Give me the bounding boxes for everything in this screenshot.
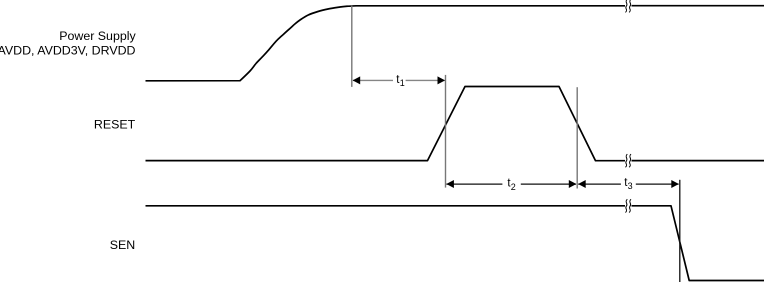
svg-text:1: 1 [400, 78, 405, 88]
arrowhead t1 right [438, 76, 446, 84]
arrowhead t3 right [671, 180, 679, 188]
arrowhead t3 left [578, 180, 586, 188]
svg-text:Power Supply: Power Supply [59, 29, 136, 43]
arrowhead t2 left [446, 180, 454, 188]
arrowhead t1 left [353, 76, 361, 84]
wire SEN waveform (high, fall, low) [146, 205, 626, 207]
measurement line at RESET falling mid [576, 87, 578, 188]
wire RESET waveform (low, rise, high, fall, low) [146, 87, 626, 161]
measurement line at power-up complete [351, 6, 353, 87]
dimension arrow t1 right segment [406, 79, 445, 81]
wire RESET low line after break [632, 160, 764, 162]
wire power-supply high line after break [632, 5, 764, 7]
svg-text:RESET: RESET [94, 118, 136, 132]
break symbol on power-supply line [625, 0, 631, 12]
svg-text:2: 2 [511, 182, 516, 192]
svg-text:SEN: SEN [110, 238, 135, 252]
dimension arrow t2 left segment [446, 183, 502, 185]
svg-text:3: 3 [628, 181, 633, 191]
dimension arrow t3 left segment [578, 183, 621, 185]
wire power-supply waveform (low, ramp, high plateau) [146, 6, 626, 81]
break symbol on SEN line [625, 199, 631, 212]
dimension arrow t1 left segment [353, 79, 393, 81]
measurement line at RESET rising mid [445, 75, 447, 188]
dimension arrow t2 right segment [521, 183, 576, 185]
break symbol on RESET line [625, 154, 631, 167]
dimension arrow t3 right segment [636, 183, 679, 185]
measurement line at SEN falling mid [679, 180, 681, 282]
arrowhead t2 right [569, 180, 577, 188]
svg-text:AVDD, AVDD3V, DRVDD: AVDD, AVDD3V, DRVDD [0, 44, 136, 58]
